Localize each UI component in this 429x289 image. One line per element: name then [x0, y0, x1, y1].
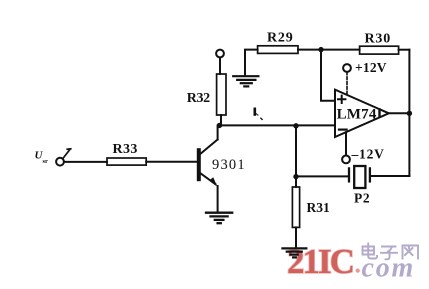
terminal +12V — [343, 64, 351, 72]
wire node down to plus input — [321, 50, 335, 101]
node minus input junction — [293, 123, 298, 128]
svg-text:+12V: +12V — [355, 60, 387, 75]
input terminal Usr — [56, 149, 71, 166]
svg-text:sr: sr — [43, 158, 49, 165]
wire R30 to feedback line — [399, 49, 410, 51]
wire R32 to node — [220, 115, 222, 125]
svg-text:LM74: LM74 — [337, 106, 377, 122]
svg-text:R32: R32 — [187, 91, 210, 106]
resistor R32 — [217, 74, 226, 115]
wire feedback vertical — [408, 50, 410, 176]
wire op-amp to -12V — [345, 132, 347, 155]
svg-text:–12V: –12V — [351, 147, 385, 162]
node collector junction — [217, 123, 222, 128]
wire P2 to feedback line — [371, 175, 409, 177]
resistor R29 — [258, 46, 298, 54]
svg-text:R31: R31 — [307, 200, 330, 215]
watermark 21IC.com logo — [287, 242, 418, 284]
svg-text:R30: R30 — [365, 32, 392, 47]
wire node to op-amp minus input — [220, 124, 336, 126]
label Usr — [35, 149, 49, 165]
node output junction — [407, 111, 412, 116]
terminal -12V — [342, 156, 350, 164]
svg-text:9301: 9301 — [212, 157, 246, 173]
ground (R31) — [283, 248, 307, 257]
svg-text:R29: R29 — [267, 31, 294, 46]
resistor R31 — [292, 187, 299, 227]
wire node to P2 — [296, 175, 348, 177]
svg-text:P2: P2 — [354, 191, 370, 206]
svg-text:R33: R33 — [113, 142, 138, 157]
terminal (R32 top) — [216, 50, 224, 58]
wire +12V to op-amp — [346, 72, 348, 95]
wire node down to R31/P2 node — [295, 126, 297, 177]
piezo element P2 — [349, 166, 370, 188]
wire R29 to node — [298, 49, 321, 51]
wire R29 left to ground corner — [245, 50, 258, 76]
wire node to R31 — [295, 177, 297, 187]
node R31/P2 junction — [293, 174, 298, 179]
resistor R33 — [107, 158, 146, 165]
wire terminal to R32 — [219, 58, 221, 74]
wire op-amp output — [389, 112, 410, 114]
resistor R30 — [360, 46, 399, 54]
node R29/R30 junction — [318, 47, 323, 52]
label U1 — [254, 108, 264, 121]
wire R31 to ground — [295, 227, 297, 247]
ground (emitter) — [206, 213, 232, 224]
op-amp U1 LM741 — [335, 90, 389, 137]
svg-text:.: . — [355, 250, 362, 279]
ground (R29) — [233, 76, 258, 86]
wire input to R33 — [64, 161, 107, 163]
wire node to R30 — [321, 49, 360, 51]
wire R33 to base — [146, 161, 197, 163]
transistor Q1 9301 — [197, 126, 218, 212]
